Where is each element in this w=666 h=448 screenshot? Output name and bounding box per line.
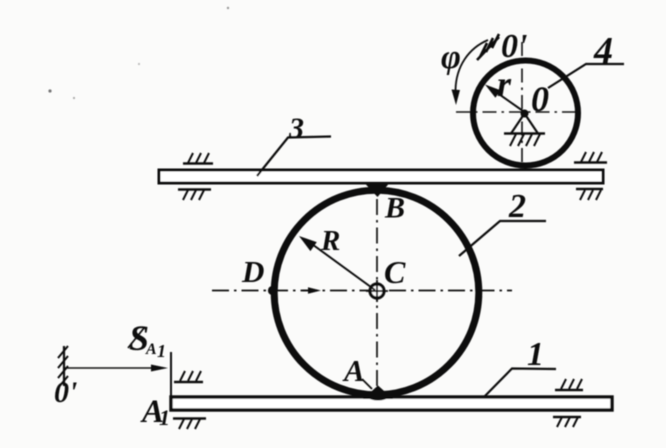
- svg-text:1: 1: [527, 336, 544, 373]
- hatch below right end of bar 1: [553, 416, 581, 418]
- svg-text:R: R: [320, 225, 340, 257]
- wheel 4 vertical centerline: [521, 42, 523, 167]
- svg-text:2: 2: [508, 188, 526, 225]
- wheel 2 horizontal centerline: [212, 290, 512, 292]
- radius R arrow: [305, 239, 375, 290]
- hatch below left end of bar 1: [173, 417, 206, 419]
- svg-text:0': 0': [501, 28, 527, 65]
- svg-text:D: D: [241, 254, 264, 289]
- svg-text:4: 4: [593, 30, 613, 72]
- hatch above right end of bar 1: [555, 389, 583, 391]
- wheel 4 (small circle): [473, 61, 578, 166]
- center C symbol: [370, 284, 384, 298]
- point B: [365, 184, 389, 198]
- pivot support of wheel 4: [521, 110, 529, 118]
- svg-text:1: 1: [157, 341, 166, 361]
- fixed direction hatching at O' (top): [477, 34, 499, 60]
- hatch above left end of bar 3: [183, 162, 213, 164]
- svg-text:1: 1: [159, 405, 170, 430]
- small arrow on centerline: [302, 290, 312, 292]
- end mark at left end of bar 1: [170, 352, 172, 400]
- hatch above right end of bar 3: [574, 161, 607, 163]
- fixed wall at O' (bottom left): [63, 346, 65, 386]
- svg-text:0: 0: [531, 79, 549, 119]
- svg-text:A: A: [342, 353, 365, 388]
- hatch below left end of bar 3: [178, 188, 211, 190]
- bar 1 (lower rail): [171, 397, 612, 410]
- svg-text:0': 0': [54, 376, 77, 409]
- point A: [363, 386, 393, 400]
- hatch below right end of bar 3: [576, 188, 603, 190]
- svg-text:A: A: [145, 341, 157, 358]
- svg-text:r: r: [497, 64, 512, 104]
- svg-text:C: C: [384, 254, 406, 290]
- wheel 2 (large circle): [274, 190, 479, 395]
- radius r arrow: [491, 89, 523, 112]
- point D: [268, 286, 277, 295]
- speck noise dots: [48, 89, 51, 92]
- wheel 2 vertical centerline: [376, 199, 378, 395]
- bar 3 (upper rail): [159, 170, 603, 183]
- wheel 4 horizontal centerline: [456, 111, 581, 113]
- svg-text:φ: φ: [441, 39, 461, 76]
- arrow S_A1: [64, 367, 152, 369]
- svg-text:B: B: [384, 192, 405, 225]
- hatch above left end of bar 1: [174, 381, 203, 383]
- leader A: [362, 379, 372, 389]
- svg-text:3: 3: [288, 112, 304, 145]
- angle phi arc arrow: [456, 40, 489, 90]
